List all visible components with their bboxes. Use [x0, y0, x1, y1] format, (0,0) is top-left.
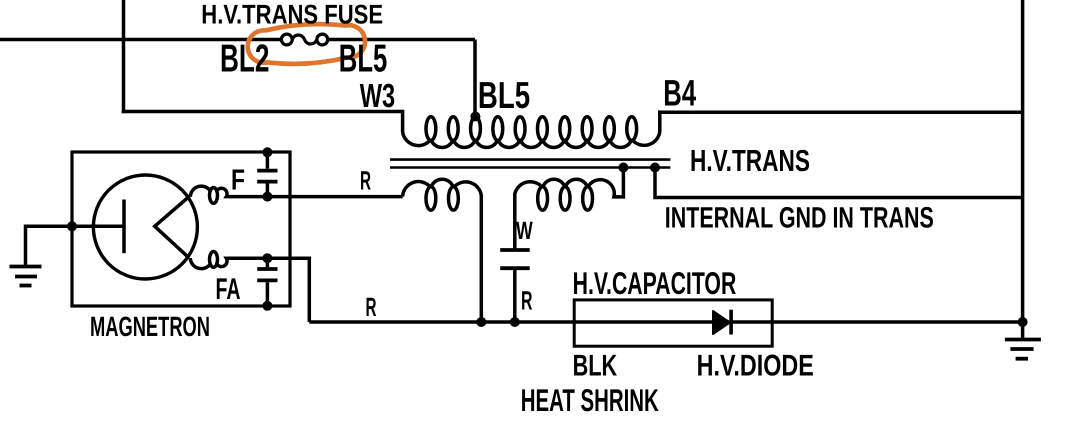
svg-text:B4: B4: [663, 73, 696, 114]
svg-text:BL2: BL2: [220, 37, 270, 80]
svg-text:FA: FA: [216, 273, 241, 306]
svg-text:INTERNAL GND IN TRANS: INTERNAL GND IN TRANS: [665, 201, 934, 234]
svg-text:R: R: [360, 166, 371, 196]
svg-text:H.V.TRANS FUSE: H.V.TRANS FUSE: [201, 0, 383, 29]
svg-text:BL5: BL5: [478, 74, 530, 116]
svg-text:W3: W3: [360, 78, 395, 115]
svg-text:HEAT SHRINK: HEAT SHRINK: [521, 382, 659, 418]
svg-text:H.V.TRANS: H.V.TRANS: [690, 144, 810, 178]
svg-text:W: W: [516, 217, 533, 245]
svg-text:BLK: BLK: [573, 349, 618, 382]
svg-text:F: F: [231, 165, 245, 197]
svg-text:H.V.CAPACITOR: H.V.CAPACITOR: [573, 265, 737, 301]
svg-text:R: R: [366, 292, 377, 322]
svg-text:BL5: BL5: [339, 37, 388, 80]
svg-text:H.V.DIODE: H.V.DIODE: [697, 349, 814, 382]
svg-text:MAGNETRON: MAGNETRON: [90, 311, 210, 342]
svg-text:R: R: [521, 286, 533, 316]
